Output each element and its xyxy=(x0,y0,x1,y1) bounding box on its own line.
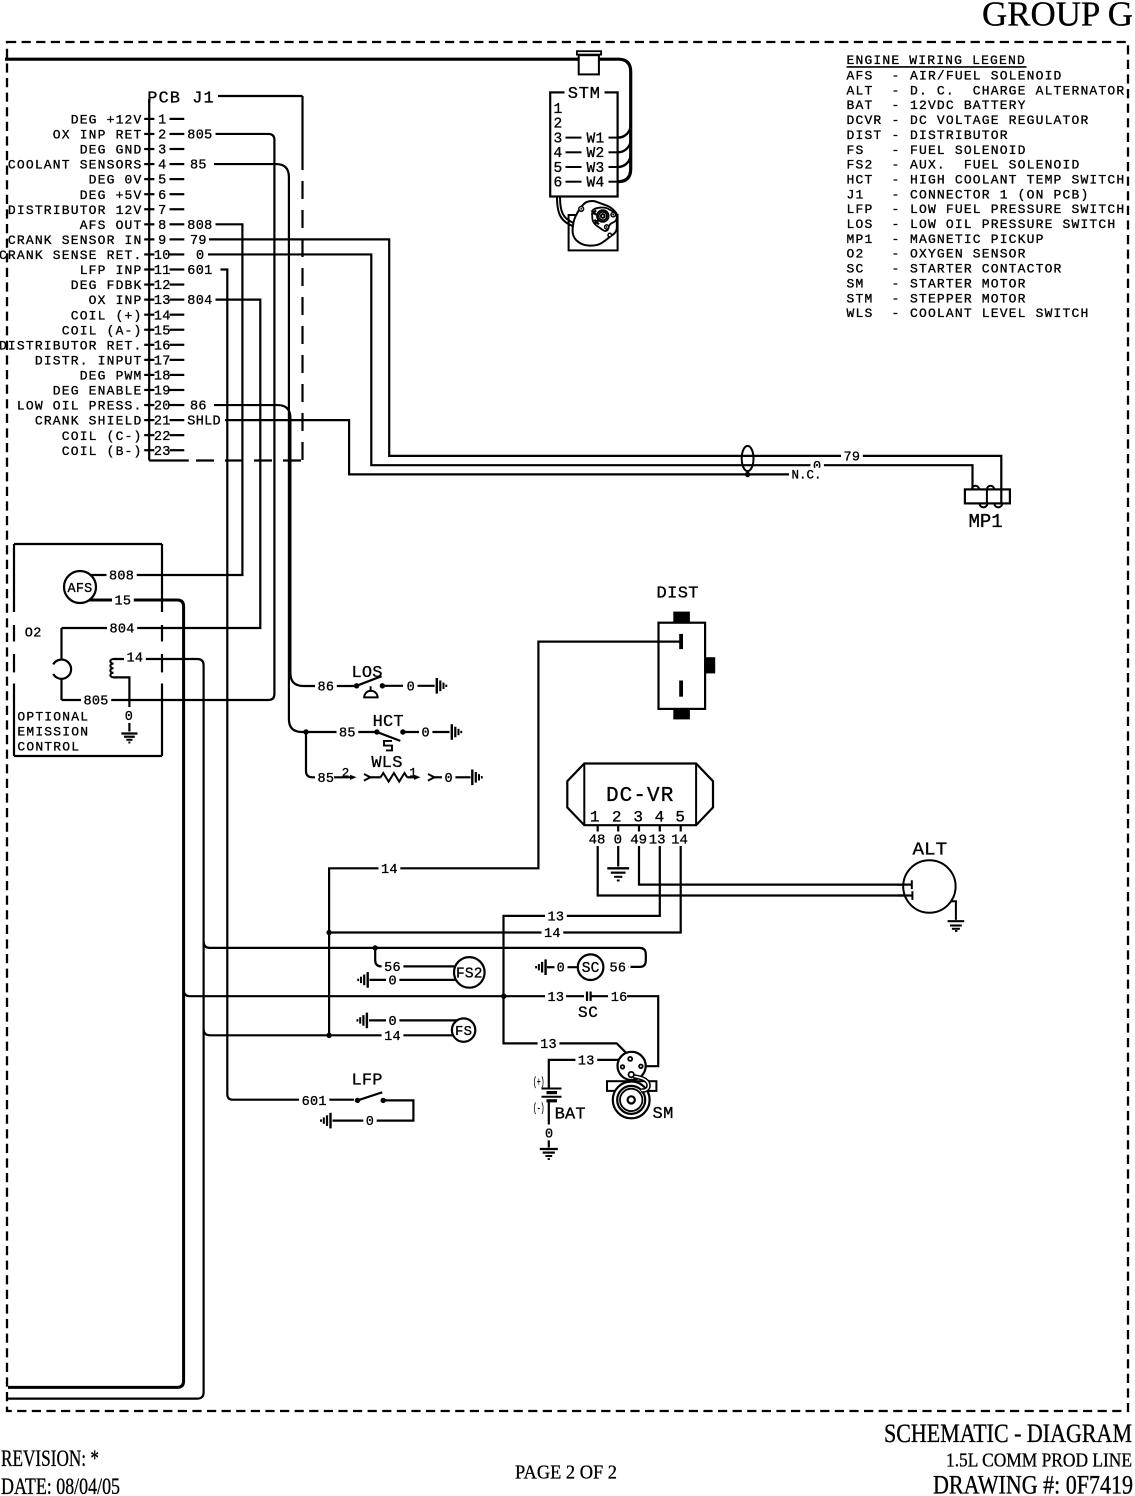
svg-text:-: - xyxy=(892,187,901,202)
svg-text:17: 17 xyxy=(154,354,171,369)
starter contactor coil SC xyxy=(578,954,604,980)
svg-text:9: 9 xyxy=(158,234,166,249)
svg-text:2: 2 xyxy=(342,766,350,780)
net label 86 xyxy=(315,679,337,693)
svg-text:16: 16 xyxy=(611,991,628,1006)
svg-text:13: 13 xyxy=(578,1055,595,1070)
heater to ground xyxy=(114,677,130,707)
DC-VR pin 2 lead xyxy=(617,825,619,831)
svg-text:-: - xyxy=(892,276,901,291)
svg-text:808: 808 xyxy=(109,570,134,585)
wire 14: from left riser to FS xyxy=(204,1029,453,1035)
wire 601: pin 11 down to LFP xyxy=(221,270,355,1100)
svg-text:COIL (B-): COIL (B-) xyxy=(62,444,143,459)
wire SHLD: pin 21 to N.C. xyxy=(225,420,790,474)
svg-text:-: - xyxy=(892,128,901,143)
svg-text:0: 0 xyxy=(389,974,397,989)
svg-text:HCT: HCT xyxy=(373,713,404,732)
harness branch to W2 xyxy=(618,140,631,153)
svg-text:8: 8 xyxy=(158,219,166,234)
net label 0 xyxy=(543,1126,556,1140)
harness connector block xyxy=(577,51,601,54)
wire 0: DC-VR pin2 to ground xyxy=(617,846,619,867)
svg-text:DEG +12V: DEG +12V xyxy=(71,113,143,128)
svg-text:1: 1 xyxy=(554,102,563,118)
svg-text:AFS OUT: AFS OUT xyxy=(80,218,143,233)
harness branch to W1 xyxy=(618,125,631,138)
svg-text:REVISION: *: REVISION: * xyxy=(1,1446,99,1471)
voltage regulator DC-VR xyxy=(567,764,713,826)
svg-text:0: 0 xyxy=(545,1127,553,1142)
net label 14 xyxy=(382,1028,404,1042)
svg-text:CONTROL: CONTROL xyxy=(17,740,80,755)
svg-text:SC: SC xyxy=(578,1004,598,1022)
junction xyxy=(355,1098,360,1103)
svg-text:12: 12 xyxy=(154,279,171,294)
svg-text:CONNECTOR 1 (ON PCB): CONNECTOR 1 (ON PCB) xyxy=(910,187,1089,202)
svg-text:79: 79 xyxy=(190,234,207,249)
net label 0 xyxy=(122,709,135,723)
svg-text:601: 601 xyxy=(302,1095,327,1110)
svg-text:MP1: MP1 xyxy=(847,232,874,247)
svg-text:CRANK SHIELD: CRANK SHIELD xyxy=(35,414,143,429)
svg-text:COOLANT SENSORS: COOLANT SENSORS xyxy=(8,158,143,173)
ground (SC coil) xyxy=(544,959,546,975)
junction xyxy=(612,214,614,216)
svg-text:13: 13 xyxy=(548,911,565,926)
svg-text:DEG FDBK: DEG FDBK xyxy=(71,278,143,293)
svg-text:14: 14 xyxy=(671,833,688,849)
svg-text:STM: STM xyxy=(568,85,601,104)
svg-text:6: 6 xyxy=(158,189,166,204)
svg-text:(-): (-) xyxy=(533,1103,545,1116)
svg-text:DC-VR: DC-VR xyxy=(606,785,675,808)
svg-text:SHLD: SHLD xyxy=(187,415,221,430)
svg-text:DIST: DIST xyxy=(847,128,883,143)
svg-text:-: - xyxy=(892,83,901,98)
svg-text:OPTIONAL: OPTIONAL xyxy=(17,709,89,724)
junction xyxy=(381,1098,386,1103)
svg-text:DIST: DIST xyxy=(657,585,699,604)
net label 14 xyxy=(542,926,564,940)
DC-VR pin 3 lead xyxy=(638,825,640,831)
ALT case ground xyxy=(951,901,956,920)
wire 0: pin 10 to MP1 xyxy=(208,254,973,489)
net label 0 xyxy=(404,679,417,693)
svg-text:OXYGEN SENSOR: OXYGEN SENSOR xyxy=(910,247,1027,262)
net label 0 xyxy=(419,725,432,739)
svg-text:-: - xyxy=(892,143,901,158)
svg-text:DEG ENABLE: DEG ENABLE xyxy=(53,384,143,399)
svg-text:FS: FS xyxy=(455,1024,472,1040)
svg-text:DEG +5V: DEG +5V xyxy=(80,188,143,203)
resistor WLS xyxy=(381,773,408,782)
stepper motor flange xyxy=(592,208,617,231)
svg-text:6: 6 xyxy=(554,176,563,192)
svg-text:STARTER MOTOR: STARTER MOTOR xyxy=(910,276,1027,291)
wire 804: pin 13 to O2 sensor xyxy=(62,300,261,628)
ground (O2 heater) xyxy=(121,732,137,734)
svg-text:-: - xyxy=(892,158,901,173)
wire 86: pin 20 down to LOS xyxy=(214,405,355,686)
svg-text:PCB J1: PCB J1 xyxy=(147,90,215,109)
svg-text:804: 804 xyxy=(110,623,135,638)
ground (FS) xyxy=(366,1013,368,1029)
solenoid AFS xyxy=(64,571,96,603)
svg-text:DCVR: DCVR xyxy=(847,113,883,128)
junction xyxy=(374,729,379,734)
svg-text:LOW OIL PRESS.: LOW OIL PRESS. xyxy=(17,399,143,414)
stepper motor body xyxy=(569,215,618,250)
net label 85 xyxy=(315,770,337,784)
svg-text:804: 804 xyxy=(187,294,212,309)
harness branch to W3 xyxy=(618,154,631,167)
svg-text:3: 3 xyxy=(633,809,643,827)
net label 0 xyxy=(363,1114,376,1128)
svg-text:808: 808 xyxy=(187,219,212,234)
svg-text:ENGINE WIRING LEGEND: ENGINE WIRING LEGEND xyxy=(847,53,1026,68)
svg-text:2: 2 xyxy=(158,129,166,144)
svg-text:W4: W4 xyxy=(587,176,605,192)
svg-text:EMISSION: EMISSION xyxy=(17,724,89,739)
net label 805 xyxy=(81,693,111,707)
svg-text:0: 0 xyxy=(125,710,133,725)
svg-text:-: - xyxy=(892,262,901,277)
svg-text:-: - xyxy=(892,202,901,217)
svg-text:-: - xyxy=(892,217,901,232)
net label 56 xyxy=(607,960,629,974)
svg-text:13: 13 xyxy=(548,991,565,1006)
svg-text:DATE: 08/04/05: DATE: 08/04/05 xyxy=(1,1474,120,1496)
svg-text:0: 0 xyxy=(557,962,565,977)
svg-text:1: 1 xyxy=(590,809,600,827)
svg-text:LOS: LOS xyxy=(847,217,874,232)
svg-text:14: 14 xyxy=(154,309,171,324)
shield bead oval on 79/0 pair xyxy=(742,446,754,471)
svg-text:BAT: BAT xyxy=(555,1106,586,1125)
svg-text:86: 86 xyxy=(318,680,335,695)
net label 0 xyxy=(554,960,567,974)
wire 56: from left riser to SC xyxy=(204,942,646,967)
wire 79: pin 9 to MP1 xyxy=(209,239,1001,503)
svg-text:ALT: ALT xyxy=(847,83,874,98)
svg-text:56: 56 xyxy=(610,962,627,977)
svg-text:MAGNETIC PICKUP: MAGNETIC PICKUP xyxy=(910,232,1045,247)
svg-text:DISTRIBUTOR: DISTRIBUTOR xyxy=(910,128,1009,143)
svg-text:-: - xyxy=(892,247,901,262)
wire 49: DC-VR pin3 to ALT xyxy=(639,846,905,885)
wire 808: pin 8 to AFS xyxy=(91,224,243,575)
SM solenoid terminals xyxy=(628,1057,632,1061)
svg-text:SM: SM xyxy=(653,1105,674,1124)
svg-text:13: 13 xyxy=(649,833,666,849)
svg-text:GROUP G: GROUP G xyxy=(982,0,1133,34)
junction xyxy=(380,683,385,688)
net label 808 xyxy=(107,568,137,582)
svg-text:16: 16 xyxy=(154,339,171,354)
svg-text:J1: J1 xyxy=(847,187,865,202)
svg-text:10: 10 xyxy=(154,249,171,264)
DC-VR pin 1 lead xyxy=(597,825,599,831)
svg-text:SCHEMATIC - DIAGRAM: SCHEMATIC - DIAGRAM xyxy=(884,1419,1132,1448)
svg-text:-: - xyxy=(892,98,901,113)
wire 14: DC-VR pin5 to bus xyxy=(329,846,681,933)
svg-text:WLS: WLS xyxy=(371,754,402,773)
svg-text:WLS: WLS xyxy=(847,306,874,321)
junction xyxy=(745,472,750,477)
wire 14: DIST lead down to bus xyxy=(329,642,680,1036)
svg-text:LFP: LFP xyxy=(847,202,874,217)
junction xyxy=(326,1033,331,1038)
wire 14: O2 heater down left side of page xyxy=(8,659,204,1399)
junction xyxy=(580,208,582,210)
svg-text:LFP: LFP xyxy=(352,1072,383,1091)
wire 13: BAT to SM solenoid xyxy=(549,1060,619,1089)
svg-text:LFP INP: LFP INP xyxy=(80,263,143,278)
wire 15: AFS down left side of page (thick) xyxy=(8,600,184,1387)
junction xyxy=(501,994,506,999)
svg-text:OX INP RET: OX INP RET xyxy=(53,128,143,143)
wire 85: pin 4 down to HCT xyxy=(214,164,375,732)
svg-text:0: 0 xyxy=(366,1115,374,1130)
svg-text:23: 23 xyxy=(154,445,171,460)
svg-text:ALT: ALT xyxy=(913,841,948,861)
svg-text:MP1: MP1 xyxy=(969,511,1003,533)
svg-text:OX INP: OX INP xyxy=(89,293,143,308)
svg-text:AFS: AFS xyxy=(847,69,874,84)
svg-text:13: 13 xyxy=(540,1038,557,1053)
DC-VR pin 4 lead xyxy=(659,825,661,831)
svg-text:0: 0 xyxy=(422,727,430,742)
net label 13 xyxy=(545,909,567,923)
svg-text:85: 85 xyxy=(339,727,356,742)
svg-text:AFS: AFS xyxy=(68,582,93,597)
svg-text:STARTER CONTACTOR: STARTER CONTACTOR xyxy=(910,262,1063,277)
ground (DC-VR) xyxy=(607,867,629,869)
aux fuel solenoid FS2 xyxy=(454,957,485,988)
svg-text:-: - xyxy=(892,306,901,321)
svg-text:FS2: FS2 xyxy=(847,158,874,173)
net label 14 (DIST) xyxy=(379,861,401,875)
svg-text:FS: FS xyxy=(847,143,865,158)
svg-text:0: 0 xyxy=(389,1015,397,1030)
svg-text:5: 5 xyxy=(554,161,563,177)
svg-text:805: 805 xyxy=(84,695,109,710)
svg-text:W2: W2 xyxy=(587,146,605,162)
solenoid cable hook xyxy=(634,1076,649,1090)
svg-text:W1: W1 xyxy=(587,131,605,147)
svg-text:14: 14 xyxy=(384,1030,401,1045)
wire 805: pin 2 to O2 sensor xyxy=(62,134,275,700)
main harness cable (thick) to STM xyxy=(5,59,631,182)
svg-text:3: 3 xyxy=(158,144,166,159)
svg-text:O2: O2 xyxy=(847,247,865,262)
net label 804 xyxy=(107,621,137,635)
svg-text:-: - xyxy=(892,69,901,84)
svg-text:DISTRIBUTOR RET.: DISTRIBUTOR RET. xyxy=(0,338,143,353)
svg-text:STM: STM xyxy=(847,291,874,306)
svg-text:DC VOLTAGE REGULATOR: DC VOLTAGE REGULATOR xyxy=(910,113,1089,128)
svg-text:85: 85 xyxy=(190,159,207,174)
svg-text:-: - xyxy=(892,232,901,247)
svg-text:15: 15 xyxy=(115,595,132,610)
svg-text:14: 14 xyxy=(127,652,144,667)
ground (FS2) xyxy=(367,972,369,988)
net label 56 xyxy=(382,959,404,973)
junction xyxy=(326,930,331,935)
magnetic pickup MP1 xyxy=(965,489,1010,503)
starter motor SM xyxy=(607,1081,656,1091)
svg-text:W3: W3 xyxy=(587,161,605,177)
svg-text:AUX. FUEL SOLENOID: AUX. FUEL SOLENOID xyxy=(910,158,1080,173)
svg-text:CRANK SENSE RET.: CRANK SENSE RET. xyxy=(0,248,143,263)
svg-text:LOW FUEL PRESSURE SWITCH: LOW FUEL PRESSURE SWITCH xyxy=(910,202,1125,217)
svg-text:DISTRIBUTOR 12V: DISTRIBUTOR 12V xyxy=(8,203,143,218)
svg-text:SC: SC xyxy=(582,961,600,977)
net label 13 xyxy=(538,1037,560,1051)
svg-text:DEG PWM: DEG PWM xyxy=(80,369,143,384)
svg-text:14: 14 xyxy=(381,863,398,878)
flange screws xyxy=(592,210,597,215)
junction xyxy=(373,945,378,950)
svg-text:FS2: FS2 xyxy=(456,967,483,983)
svg-text:79: 79 xyxy=(844,450,861,465)
svg-text:0: 0 xyxy=(196,249,204,264)
svg-text:COIL (C-): COIL (C-) xyxy=(62,429,143,444)
svg-text:21: 21 xyxy=(154,415,171,430)
svg-text:86: 86 xyxy=(190,400,207,415)
net label 15 xyxy=(112,593,134,607)
svg-text:BAT: BAT xyxy=(847,98,874,113)
ground (LFP) xyxy=(329,1113,331,1129)
O2 heater coil xyxy=(110,659,113,677)
svg-text:DEG GND: DEG GND xyxy=(80,143,143,158)
svg-text:FUEL SOLENOID: FUEL SOLENOID xyxy=(910,143,1027,158)
fuel solenoid FS xyxy=(452,1018,475,1041)
svg-text:5: 5 xyxy=(675,809,685,827)
junction xyxy=(354,683,359,688)
ground (WLS) xyxy=(471,770,473,786)
DC-VR pin 5 lead xyxy=(680,825,682,831)
svg-text:-: - xyxy=(892,113,901,128)
svg-text:18: 18 xyxy=(154,370,171,385)
svg-text:DEG 0V: DEG 0V xyxy=(89,173,143,188)
svg-text:DRAWING #: 0F7419: DRAWING #: 0F7419 xyxy=(933,1471,1133,1496)
svg-text:22: 22 xyxy=(154,430,171,445)
svg-text:5: 5 xyxy=(158,174,166,189)
net label 0 xyxy=(811,458,824,472)
net label 79 xyxy=(841,449,863,463)
SC contact xyxy=(586,992,588,1001)
svg-text:3: 3 xyxy=(554,131,563,147)
connector J1 body outline (part solid, part dashed) xyxy=(218,95,303,97)
svg-text:14: 14 xyxy=(544,927,561,942)
svg-text:4: 4 xyxy=(655,809,665,827)
svg-text:STEPPER MOTOR: STEPPER MOTOR xyxy=(910,291,1027,306)
junction xyxy=(400,729,405,734)
svg-text:1.5L COMM PROD LINE: 1.5L COMM PROD LINE xyxy=(946,1450,1132,1472)
wire 13: DC-VR pin4 via bus to SM solenoid xyxy=(504,846,660,1057)
svg-text:13: 13 xyxy=(154,294,171,309)
net label 14 xyxy=(124,650,146,664)
net label 13 xyxy=(575,1053,597,1067)
net label 16 xyxy=(608,989,630,1003)
svg-text:DISTR. INPUT: DISTR. INPUT xyxy=(35,353,143,368)
svg-text:2: 2 xyxy=(554,117,563,133)
wire 48: DC-VR pin1 to ALT xyxy=(598,846,905,896)
wire 13/16: SC contact row xyxy=(184,990,546,996)
svg-text:4: 4 xyxy=(554,146,563,162)
stepper motor STM connector box xyxy=(550,92,617,196)
net label 85 xyxy=(337,725,359,739)
svg-text:HCT: HCT xyxy=(847,172,874,187)
wire 14 lead inside DIST xyxy=(658,640,680,642)
net label 0 xyxy=(386,1014,399,1028)
svg-text:LOS: LOS xyxy=(352,664,383,683)
svg-text:11: 11 xyxy=(154,264,171,279)
svg-text:0: 0 xyxy=(445,772,453,787)
svg-text:0: 0 xyxy=(407,680,415,695)
svg-text:COOLANT LEVEL SWITCH: COOLANT LEVEL SWITCH xyxy=(910,306,1089,321)
svg-text:20: 20 xyxy=(154,400,171,415)
svg-text:-: - xyxy=(892,172,901,187)
svg-text:LOW OIL PRESSURE SWITCH: LOW OIL PRESSURE SWITCH xyxy=(910,217,1116,232)
svg-text:19: 19 xyxy=(154,385,171,400)
ground (HCT) xyxy=(451,724,453,740)
svg-text:85: 85 xyxy=(318,772,335,787)
svg-text:PAGE 2 OF 2: PAGE 2 OF 2 xyxy=(515,1462,617,1484)
junction xyxy=(303,729,308,734)
svg-text:805: 805 xyxy=(187,129,212,144)
svg-text:CRANK SENSOR IN: CRANK SENSOR IN xyxy=(8,233,143,248)
svg-text:SC: SC xyxy=(847,262,865,277)
svg-text:SM: SM xyxy=(847,276,865,291)
svg-text:12VDC BATTERY: 12VDC BATTERY xyxy=(910,98,1027,113)
svg-text:COIL (A-): COIL (A-) xyxy=(62,323,143,338)
ground (BAT) xyxy=(540,1148,558,1150)
svg-text:D. C. CHARGE ALTERNATOR: D. C. CHARGE ALTERNATOR xyxy=(910,83,1125,98)
svg-text:2: 2 xyxy=(612,809,622,827)
net label 0 xyxy=(386,973,399,987)
svg-text:AIR/FUEL SOLENOID: AIR/FUEL SOLENOID xyxy=(910,69,1063,84)
ground (LOS) xyxy=(436,678,438,694)
junction xyxy=(606,226,608,228)
svg-text:15: 15 xyxy=(154,324,171,339)
svg-text:4: 4 xyxy=(158,159,166,174)
optional emission control box xyxy=(14,543,162,545)
net label 13 xyxy=(545,989,567,1003)
svg-text:7: 7 xyxy=(158,204,166,219)
svg-text:O2: O2 xyxy=(25,627,42,642)
svg-text:HIGH COOLANT TEMP SWITCH: HIGH COOLANT TEMP SWITCH xyxy=(910,172,1125,187)
svg-text:-: - xyxy=(892,291,901,306)
net label 0 xyxy=(442,770,455,784)
svg-text:N.C.: N.C. xyxy=(792,469,822,483)
svg-text:COIL (+): COIL (+) xyxy=(71,308,143,323)
svg-text:1: 1 xyxy=(158,114,166,129)
net label 601 xyxy=(299,1093,329,1107)
svg-text:601: 601 xyxy=(187,264,212,279)
label N.C. xyxy=(789,468,824,482)
